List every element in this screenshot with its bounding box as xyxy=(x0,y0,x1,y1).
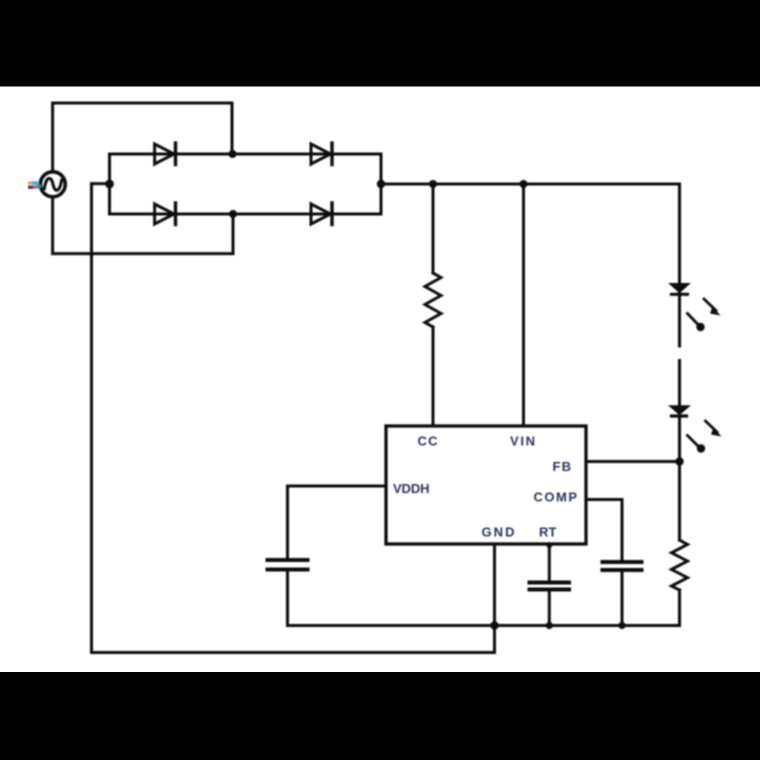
node A (AC return node) xyxy=(105,180,114,189)
AC source V1 xyxy=(40,172,65,197)
resistor R2 xyxy=(672,540,688,590)
svg-text:VDDH: VDDH xyxy=(393,481,430,496)
svg-text:FB: FB xyxy=(553,459,572,474)
wire: FB stub xyxy=(586,460,680,463)
diode D3 xyxy=(155,203,176,225)
svg-text:GND: GND xyxy=(482,525,515,540)
op-amp U1 (LED driver IC body) xyxy=(386,426,586,544)
node: junction top wire / top row xyxy=(229,150,237,158)
node: ground rail / GND junction xyxy=(490,621,498,629)
wire: top diode row xyxy=(110,153,382,156)
capacitor C2 xyxy=(603,562,642,570)
wire: left bridge vertical through node A xyxy=(108,154,111,214)
wire: C3 bottom to ground rail xyxy=(548,591,551,626)
wire: CC branch upper segment xyxy=(432,184,435,273)
wire: LED string upper segment xyxy=(678,184,681,346)
svg-text:RT: RT xyxy=(539,525,557,540)
wire: AC source top lead to top rail and down to bridge top row xyxy=(53,103,232,172)
wire: C1 bottom to ground rail xyxy=(286,572,289,626)
wire: bottom diode row xyxy=(110,213,382,216)
node: ground rail / C2 junction xyxy=(618,622,625,629)
node: RT pin at IC edge xyxy=(546,542,552,548)
wire: bottom ground rail xyxy=(288,624,680,627)
wire: GND pin down and return line to node A xyxy=(92,184,495,653)
LED LED1 xyxy=(672,285,721,332)
node: rail junction CC xyxy=(429,180,437,188)
wire: CC branch lower segment into IC xyxy=(432,327,435,426)
resistor R1 xyxy=(425,273,441,327)
node: ground rail / C3 junction xyxy=(546,622,553,629)
svg-text:COMP: COMP xyxy=(534,490,578,505)
wire: VIN branch xyxy=(522,184,525,426)
node B (bridge output) xyxy=(377,180,385,188)
capacitor C1 xyxy=(268,560,308,570)
wire: VDDH stub to C1 xyxy=(288,486,387,558)
LED LED2 xyxy=(672,407,722,453)
wire: rectified output rail xyxy=(381,183,680,186)
wire: LED string continuation after break xyxy=(678,361,681,541)
wire: R2 bottom to ground rail xyxy=(678,590,681,626)
node: FB / LED string junction xyxy=(675,457,683,465)
node: junction bottom wire / bottom row xyxy=(229,210,237,218)
svg-text:CC: CC xyxy=(418,434,439,449)
diode D2 xyxy=(311,143,332,165)
capacitor C3 xyxy=(530,583,570,590)
wire: C2 bottom to ground rail xyxy=(621,572,624,626)
wire: COMP stub to C2 xyxy=(586,500,622,561)
polarity marker at AC source xyxy=(28,181,41,189)
diode D1 xyxy=(155,143,176,165)
svg-text:VIN: VIN xyxy=(510,434,535,449)
wire: right bridge vertical to node B xyxy=(380,154,383,214)
wire: AC source bottom lead to bottom wire and up to bridge bottom row xyxy=(53,197,233,254)
diode D4 xyxy=(311,203,332,225)
wire: RT pin to C3 xyxy=(548,544,551,581)
node: rail junction VIN xyxy=(520,180,528,188)
